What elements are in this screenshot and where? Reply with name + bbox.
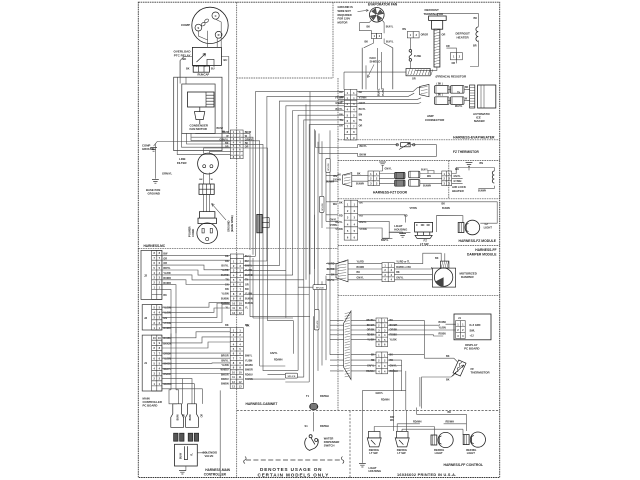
cable feed damper module <box>336 260 348 282</box>
svg-text:VT/BN: VT/BN <box>410 207 417 210</box>
block to plug <box>204 194 210 211</box>
C3 wires <box>446 48 456 63</box>
svg-text:LT SW: LT SW <box>420 242 429 246</box>
svg-text:(FRENCH) RESISTOR: (FRENCH) RESISTOR <box>436 74 467 78</box>
condenser fan motor body <box>188 92 215 107</box>
svg-text:CERTAIN MODELS ONLY: CERTAIN MODELS ONLY <box>258 473 330 478</box>
svg-text:TN: TN <box>245 279 248 282</box>
svg-text:OR: OR <box>446 45 450 48</box>
connector grid G1 (MC / cabinet 8-pin) <box>230 130 243 159</box>
splice SPL/CE horizontal lower <box>285 373 297 378</box>
arrow ground bare wire callout <box>212 204 227 221</box>
svg-text:BU/W: BU/W <box>177 413 179 420</box>
svg-text:PTC RELAY: PTC RELAY <box>174 54 191 58</box>
svg-text:BU/YL: BU/YL <box>221 265 229 268</box>
svg-text:BK: BK <box>365 40 369 43</box>
svg-text:WIRE NOT: WIRE NOT <box>338 9 352 13</box>
bundle-cabinet-mid <box>250 270 310 382</box>
svg-text:SPLICE: SPLICE <box>287 376 295 378</box>
svg-text:FOR 120V: FOR 120V <box>338 17 351 21</box>
svg-text:GROUND: GROUND <box>148 191 160 195</box>
connector B fzt door 3-pin <box>442 171 452 186</box>
svg-text:BU/W: BU/W <box>181 452 183 459</box>
svg-text:WH/YL: WH/YL <box>455 106 463 108</box>
svg-text:BN: BN <box>225 288 229 291</box>
svg-text:CORD: CORD <box>191 229 195 237</box>
bundle-j1-m2 <box>162 332 230 389</box>
svg-text:YL/RD or TL: YL/RD or TL <box>396 260 410 263</box>
svg-text:OR: OR <box>183 414 185 418</box>
cable feed fzt door <box>343 173 352 187</box>
evaporator fan motor circle with blades <box>370 8 385 23</box>
ff upper feed <box>351 320 376 339</box>
svg-text:BK: BK <box>331 273 335 276</box>
svg-text:BN: BN <box>402 28 406 31</box>
svg-text:MAKER: MAKER <box>474 119 486 123</box>
svg-text:GN/YL: GN/YL <box>396 277 404 280</box>
AMP connector barrel pair row 2 <box>435 97 450 105</box>
bundle-valve-feeds <box>169 328 202 404</box>
fzt feed wires <box>352 176 368 182</box>
svg-text:BK: BK <box>446 355 450 358</box>
svg-text:LT SW: LT SW <box>397 451 406 455</box>
fz thermistor loop <box>316 131 437 157</box>
svg-text:BU/WH: BU/WH <box>356 182 364 185</box>
connector FZ module 6-pin <box>344 200 358 240</box>
fzt stairs <box>452 168 464 184</box>
bundle-mid-verticals <box>306 91 330 371</box>
svg-text:REFRIG: REFRIG <box>369 448 379 452</box>
svg-text:NO: NO <box>421 224 425 227</box>
wire comp S/R/C leads <box>198 19 221 47</box>
svg-text:BK: BK <box>199 179 203 181</box>
svg-text:GN/YL: GN/YL <box>270 352 278 355</box>
svg-text:BK: BK <box>186 67 190 70</box>
ff lower feed <box>351 355 376 371</box>
svg-text:J2: J2 <box>144 273 148 277</box>
svg-text:BU/WH: BU/WH <box>442 207 450 210</box>
svg-text:WH/BU: WH/BU <box>366 319 374 322</box>
svg-text:BN: BN <box>245 288 249 291</box>
amp feed wires <box>338 72 421 104</box>
svg-text:J1: J1 <box>144 361 148 365</box>
svg-text:BU/RD: BU/RD <box>327 268 335 271</box>
svg-text:BK: BK <box>465 87 469 89</box>
ground symbol comp ground <box>150 148 157 152</box>
svg-text:BU/RD: BU/RD <box>163 277 171 280</box>
svg-text:BK: BK <box>339 201 343 204</box>
connector FF upper 6-pin <box>376 318 388 347</box>
svg-text:GN/YL: GN/YL <box>376 392 384 395</box>
svg-text:GY/WH: GY/WH <box>454 181 462 183</box>
svg-text:HARNESS-FF CONTROL: HARNESS-FF CONTROL <box>444 463 484 467</box>
svg-text:BK: BK <box>448 411 452 414</box>
svg-text:BU/BK: BU/BK <box>439 321 447 324</box>
svg-text:S1: S1 <box>305 424 309 428</box>
svg-text:CONNECTOR: CONNECTOR <box>425 118 445 122</box>
bundle-right-stubs <box>326 176 344 371</box>
svg-text:NC: NC <box>427 224 431 227</box>
svg-text:DAMPER MODULE: DAMPER MODULE <box>467 253 497 257</box>
svg-text:BU/YL: BU/YL <box>378 88 381 96</box>
svg-text:HARNESS-EVAP/HEATER: HARNESS-EVAP/HEATER <box>453 136 495 140</box>
evap fan leads <box>360 20 393 48</box>
svg-text:OR: OR <box>339 125 343 128</box>
splice vertical near x=315 y=309-330 <box>314 309 319 330</box>
svg-text:HARNESS-FF: HARNESS-FF <box>475 248 496 252</box>
svg-text:( BU ): ( BU ) <box>437 95 443 97</box>
svg-text:SPLICE: SPLICE <box>316 287 324 289</box>
solenoid gnd <box>185 466 186 470</box>
svg-text:MOTOR: MOTOR <box>338 20 348 24</box>
svg-text:SPLICE: SPLICE <box>322 203 324 211</box>
svg-text:S: S <box>198 26 200 30</box>
svg-text:RD/WH: RD/WH <box>413 421 422 424</box>
svg-text:HARNESS-FZT DOOR: HARNESS-FZT DOOR <box>373 191 408 195</box>
g1 left wires <box>191 134 230 138</box>
svg-text:FUSE: FUSE <box>414 54 421 58</box>
svg-text:THERMISTOR: THERMISTOR <box>471 370 491 374</box>
svg-text:YL/RD: YL/RD <box>357 260 364 263</box>
section divider: right harness column <box>337 78 339 411</box>
svg-text:BK: BK <box>442 202 446 205</box>
svg-text:RD/BU: RD/BU <box>221 378 229 381</box>
svg-text:BU/RD or BK: BU/RD or BK <box>396 266 411 269</box>
svg-text:BK: BK <box>246 324 250 327</box>
svg-text:BK: BK <box>183 57 187 61</box>
svg-text:BK: BK <box>225 255 229 258</box>
water valve 2 <box>186 404 199 441</box>
power cord terminal block <box>199 184 214 194</box>
connector J1 display board <box>456 321 466 339</box>
svg-text:BU/BN: BU/BN <box>245 302 253 305</box>
damper wires L <box>348 264 382 280</box>
svg-text:TERMINATOR: TERMINATOR <box>424 12 445 16</box>
FF thermistor component <box>453 360 466 376</box>
water valve 1 <box>171 404 184 441</box>
refrig light bulb 1 <box>431 432 453 447</box>
fzt barrel wires <box>379 174 394 184</box>
fuse symbol <box>409 50 412 62</box>
svg-text:BU: BU <box>211 67 215 70</box>
svg-text:OR: OR <box>163 262 167 265</box>
condenser leads <box>177 77 230 154</box>
svg-text:PC BOARD: PC BOARD <box>464 346 479 350</box>
motorized damper assembly <box>441 261 449 268</box>
svg-text:PC BOARD: PC BOARD <box>143 404 158 408</box>
svg-text:REFRIG: REFRIG <box>466 448 476 452</box>
svg-text:YL/RD: YL/RD <box>245 269 252 272</box>
defrost terminator hatch <box>434 29 440 64</box>
damper wires R <box>394 253 444 280</box>
flat connector with arrow feed (left mid) <box>257 214 262 232</box>
fan shield leads <box>366 48 381 89</box>
ballast resistor hatched box <box>406 69 430 76</box>
main controller strip J3 outline <box>142 305 162 330</box>
connector M2 cabinet 13-pin <box>230 328 243 389</box>
ff control feeds <box>362 369 466 463</box>
svg-text:RUN: RUN <box>198 73 204 77</box>
svg-text:BN/YL: BN/YL <box>245 265 253 268</box>
svg-text:BU: BU <box>245 260 249 263</box>
svg-text:RD/WH: RD/WH <box>381 399 390 402</box>
svg-text:LIGHT: LIGHT <box>467 451 475 455</box>
svg-text:SWL: SWL <box>470 329 476 332</box>
svg-text:HOUSING: HOUSING <box>369 469 382 473</box>
compressor terminal R <box>215 31 222 38</box>
svg-text:BU/RD: BU/RD <box>163 282 171 285</box>
svg-text:BU/BN: BU/BN <box>221 297 229 300</box>
svg-text:BU/WH: BU/WH <box>478 190 486 193</box>
svg-text:BN: BN <box>480 162 484 165</box>
svg-text:OR: OR <box>424 34 428 37</box>
svg-text:BU/WH: BU/WH <box>423 185 431 188</box>
svg-text:RD: RD <box>339 215 343 218</box>
svg-text:OR: OR <box>421 34 425 37</box>
svg-text:VT/BN: VT/BN <box>330 224 337 227</box>
inline splice barrels (dark) <box>395 172 405 178</box>
svg-text:BN/OR: BN/OR <box>245 369 253 372</box>
svg-text:YL/BU: YL/BU <box>382 88 385 96</box>
main controller strip J1 outline <box>142 335 162 391</box>
section divider: air lock heater box <box>448 160 450 198</box>
svg-text:OR: OR <box>201 414 203 418</box>
svg-text:BU: BU <box>224 58 228 62</box>
connector C2 2-pin <box>407 32 419 38</box>
t1 wire <box>313 316 315 431</box>
svg-text:EVAPORATOR FAN: EVAPORATOR FAN <box>368 3 398 7</box>
svg-text:RD/WH: RD/WH <box>274 358 283 361</box>
ground symbol fzt door <box>379 162 386 166</box>
svg-text:FZ THERMISTOR: FZ THERMISTOR <box>453 150 479 154</box>
fzt wires2 <box>420 171 442 184</box>
svg-text:BN/BN: BN/BN <box>245 378 253 381</box>
svg-text:BN: BN <box>333 175 337 178</box>
line filter circle <box>198 153 219 174</box>
svg-text:LT SW: LT SW <box>369 451 378 455</box>
svg-text:BK: BK <box>357 172 361 175</box>
defrost terminator body <box>429 16 447 67</box>
svg-text:BK: BK <box>446 378 450 381</box>
svg-text:REFRIG: REFRIG <box>434 448 444 452</box>
svg-text:YL/RD: YL/RD <box>163 272 170 275</box>
svg-text:BK: BK <box>225 142 229 145</box>
ff down wires <box>362 360 405 410</box>
connector A fzt door 3-pin <box>368 171 379 186</box>
bundle-j3-m1 <box>162 303 230 328</box>
svg-text:BK: BK <box>225 324 229 327</box>
svg-text:REFRIG: REFRIG <box>397 448 407 452</box>
svg-text:WH/BU: WH/BU <box>245 364 253 367</box>
svg-text:HEATER: HEATER <box>452 189 465 193</box>
svg-text:BK: BK <box>367 25 371 28</box>
inline terminal T1 bullet connector <box>310 403 318 409</box>
compressor terminal C <box>212 12 219 19</box>
svg-text:BU/WH: BU/WH <box>326 181 334 184</box>
connector damper 4-pin <box>382 263 394 282</box>
svg-text:DENOTES USAGE ON: DENOTES USAGE ON <box>260 467 322 472</box>
svg-text:HEATER: HEATER <box>457 35 470 39</box>
bundle-j2-m1 <box>162 255 230 345</box>
condenser fan motor outer enclosure box <box>174 77 222 150</box>
water dispenser switch symbol <box>305 435 319 451</box>
svg-text:BK: BK <box>390 319 394 322</box>
refrigerator light switch 2 <box>395 432 409 447</box>
line filter feed <box>204 148 231 154</box>
connector FF lower 4-pin <box>376 352 388 374</box>
svg-text:RD/BU: RD/BU <box>245 373 253 376</box>
svg-text:LIGHT: LIGHT <box>369 466 377 470</box>
bundle-m0-left <box>244 92 345 295</box>
svg-text:SPLICE: SPLICE <box>328 163 330 171</box>
svg-text:BN: BN <box>359 114 363 117</box>
svg-text:BR/YL: BR/YL <box>163 267 171 270</box>
svg-text:RD/WH: RD/WH <box>446 421 455 424</box>
svg-text:C: C <box>416 224 418 227</box>
svg-text:HARNESS-MC: HARNESS-MC <box>144 244 166 248</box>
ff to display <box>388 320 456 358</box>
svg-text:GRN/YL: GRN/YL <box>162 171 173 175</box>
filter to block <box>204 173 210 184</box>
svg-text:GN/YL: GN/YL <box>357 277 365 280</box>
solenoid valve box <box>175 444 198 466</box>
svg-text:OR: OR <box>359 125 363 128</box>
automatic ice maker connector <box>470 85 475 108</box>
svg-text:BU: BU <box>245 255 249 258</box>
condenser fan motor inner box <box>182 84 215 133</box>
svg-text:BN/YL: BN/YL <box>221 359 229 362</box>
svg-text:YL/RD: YL/RD <box>327 263 334 266</box>
section divider: evaporator-fan box left edge <box>237 2 333 78</box>
amp-icemaker wires <box>448 89 470 100</box>
svg-text:HOUSING: HOUSING <box>394 228 407 232</box>
condenser fan motor shaft and mount trapezoid <box>194 107 204 124</box>
svg-text:BK: BK <box>357 271 361 274</box>
svg-text:RD/BU: RD/BU <box>439 333 447 336</box>
svg-text:GN/YL: GN/YL <box>454 176 462 178</box>
ground symbol fz light housing <box>399 234 406 238</box>
svg-text:YL/BK: YL/BK <box>390 338 397 341</box>
cable feed into AMP connector <box>420 84 430 96</box>
svg-text:( BK ): ( BK ) <box>437 83 443 85</box>
ff therm wires <box>388 355 458 409</box>
svg-text:BK/YL: BK/YL <box>360 145 368 148</box>
svg-text:GROUND IS: GROUND IS <box>338 5 353 9</box>
svg-text:LIGHT: LIGHT <box>435 451 443 455</box>
ground symbol air lock <box>466 163 473 167</box>
section divider: dashed cabinet/FF-control split <box>237 411 500 478</box>
svg-text:GROUND: GROUND <box>142 147 154 151</box>
svg-text:GRN/YL: GRN/YL <box>219 138 229 141</box>
svg-text:FAN MOTOR: FAN MOTOR <box>190 127 208 131</box>
svg-text:BU/YL: BU/YL <box>386 40 394 43</box>
splice SPL/CE horizontal upper <box>313 285 327 290</box>
svg-text:BN/BN: BN/BN <box>221 383 229 386</box>
outer diagram border frame <box>138 2 499 477</box>
power cord plug body <box>197 212 218 244</box>
compressor COMP shell circle <box>192 7 228 43</box>
refrig light bulb 2 <box>463 432 485 447</box>
svg-text:DISPENSER: DISPENSER <box>324 440 340 444</box>
refrigerator light switch 1 <box>367 432 381 447</box>
run capacitor RUN CAP <box>193 66 209 72</box>
svg-text:SWITCH: SWITCH <box>324 443 335 447</box>
ground symbol solenoid <box>179 470 186 474</box>
compressor internal overload ellipses <box>201 18 210 26</box>
FZ thermistor symbol <box>396 144 398 146</box>
inline splice barrels (light) <box>409 171 420 178</box>
svg-text:WH: WH <box>390 419 394 422</box>
svg-text:SHIELD: SHIELD <box>370 60 382 64</box>
svg-text:BU/W: BU/W <box>190 413 192 420</box>
svg-text:RD/WH: RD/WH <box>320 424 329 428</box>
defrost loop <box>410 13 478 70</box>
svg-text:REQUIRED: REQUIRED <box>338 13 352 17</box>
svg-text:HARNESS-FZ MODULE: HARNESS-FZ MODULE <box>459 239 497 243</box>
svg-text:BU/YL: BU/YL <box>359 108 367 111</box>
main controller strip J2 outline <box>141 250 162 299</box>
connector C1 evap fan 2-pin <box>371 33 381 38</box>
svg-text:BK: BK <box>163 294 167 297</box>
svg-text:BU/RD: BU/RD <box>357 266 365 269</box>
svg-text:WATER: WATER <box>324 436 334 440</box>
fan shield outline <box>362 48 393 90</box>
freezer light switch C NO NC <box>415 222 433 232</box>
svg-text:BN/YL: BN/YL <box>381 239 389 242</box>
svg-text:(BARE WIRE): (BARE WIRE) <box>230 215 234 232</box>
svg-text:+12: +12 <box>470 335 475 338</box>
airlock gnd wire <box>468 166 470 170</box>
svg-text:COMP: COMP <box>181 23 190 27</box>
svg-text:BK/W: BK/W <box>360 153 367 156</box>
svg-text:GN/YL: GN/YL <box>385 168 393 171</box>
squiggle break line above DENOTES note <box>244 457 246 464</box>
svg-text:YL/BN: YL/BN <box>245 293 252 296</box>
svg-text:TN: TN <box>359 119 362 122</box>
svg-text:YL/BN: YL/BN <box>221 364 228 367</box>
defrost heater coil element <box>476 27 478 41</box>
svg-text:DAMPER: DAMPER <box>461 275 474 279</box>
svg-text:16036602 PRINTED IN U.S.A.: 16036602 PRINTED IN U.S.A. <box>397 473 457 477</box>
base pan ground wire <box>154 144 156 179</box>
svg-text:VALVE: VALVE <box>205 454 214 458</box>
svg-text:BK: BK <box>474 17 478 20</box>
airlock wires <box>464 168 495 189</box>
fz housing gnd <box>382 232 402 238</box>
bundle-t1-drop <box>314 129 316 330</box>
section divider: harness-MC left column <box>236 2 238 477</box>
display PC board box <box>454 314 491 340</box>
fz light bk <box>358 202 498 239</box>
tall cable feed FF section <box>344 311 351 380</box>
bundle-g1-right <box>243 134 267 321</box>
svg-text:YL/BN: YL/BN <box>439 327 446 330</box>
svg-text:BK: BK <box>396 271 400 274</box>
svg-text:TN: TN <box>340 119 343 122</box>
connector M0 evap harness 9-pin <box>344 89 357 140</box>
svg-text:FILTER: FILTER <box>177 161 187 165</box>
splice vertical near x=320 y=196-212 <box>319 196 324 212</box>
svg-text:D+5 GRD: D+5 GRD <box>470 324 481 327</box>
svg-text:CAP: CAP <box>204 73 210 77</box>
overload PTC relay box <box>192 47 221 65</box>
connector C3 2-pin <box>451 53 463 60</box>
ground symbol base pan <box>152 180 159 184</box>
svg-text:OR: OR <box>245 283 249 286</box>
svg-text:BN/YL: BN/YL <box>245 355 253 358</box>
svg-text:RD/WH: RD/WH <box>366 370 374 373</box>
section divider rows of right column <box>338 140 500 295</box>
